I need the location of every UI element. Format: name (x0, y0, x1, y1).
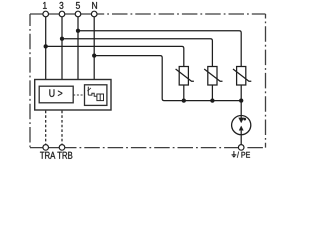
wire L1 vertical (terminal 1 down to device box) (45, 17, 47, 80)
wire varistor 1 bottom to bus (183, 85, 185, 101)
wire varistor 3 bottom through bus to spark gap (240, 85, 242, 116)
dashed wire to terminal TRA (45, 111, 47, 145)
terminal PE (238, 145, 244, 151)
label 5 (76, 2, 80, 9)
ground symbol in PE label (232, 151, 237, 158)
varistor 3 (box with diagonal) (233, 67, 251, 86)
junction dot bus at varistor 1 (182, 99, 186, 103)
dashed link U> to signalling contact (73, 94, 84, 96)
label TRA (40, 152, 55, 159)
remote signalling contact box (85, 85, 107, 106)
junction dot on wire 1 (44, 44, 48, 48)
wire L2 vertical (terminal 3 down to device box) (61, 17, 63, 80)
junction dot on wire 5 (76, 29, 80, 33)
varistor 2 (box with diagonal) (204, 67, 222, 86)
terminal 5 (75, 11, 81, 17)
spark gap N-PE (circle with facing arrows and gas dot) (232, 116, 251, 135)
wire branch from 5 to varistor 3 (78, 31, 241, 67)
terminal 3 (59, 11, 65, 17)
label TRB (57, 152, 72, 159)
junction dot on wire 3 (60, 37, 64, 41)
dashed wire to terminal TRB (61, 111, 63, 145)
enclosure border bottom (dash-dot part) (66, 147, 266, 149)
terminal TRB (59, 145, 65, 151)
wire N vertical (terminal N down to device box) (93, 17, 95, 80)
label /PE (237, 152, 250, 158)
junction dot bus at varistor 2 (210, 99, 214, 103)
wire branch from 3 to varistor 2 (62, 39, 212, 67)
enclosure border right (dash-dot) (265, 14, 267, 148)
wire branch from N down to bottom bus (94, 56, 241, 101)
device box (monitoring unit) (35, 80, 111, 111)
junction dot bus at varistor 3 (239, 99, 243, 103)
terminal TRA (43, 145, 49, 151)
wire branch from 1 to varistor 1 (46, 46, 184, 66)
enclosure border top (dash-dot part) (97, 13, 266, 15)
wire varistor 2 bottom to bus (211, 85, 213, 101)
label 3 (59, 2, 63, 9)
enclosure border bottom (solid part through TRA TRB terminals) (30, 147, 66, 149)
wire L3 vertical (terminal 5 down to device box) (77, 17, 79, 80)
label U> (49, 89, 62, 97)
label 1 (43, 2, 47, 9)
enclosure border top (solid part through terminals) (30, 13, 97, 15)
terminal N (91, 11, 97, 17)
varistor 1 (box with diagonal) (176, 67, 194, 86)
label N (92, 2, 97, 9)
terminal 1 (43, 11, 49, 17)
U> overvoltage monitor box (39, 86, 73, 103)
junction dot on wire N (92, 54, 96, 58)
enclosure border left (dash-dot) (29, 14, 31, 148)
wire spark gap to PE terminal (240, 135, 242, 145)
